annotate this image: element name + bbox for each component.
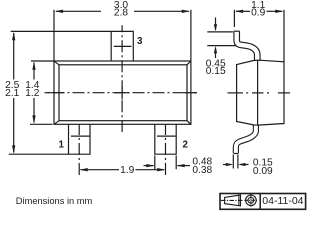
side view: body mold line <box>257 60 259 125</box>
centerline tick right body edge <box>184 92 197 94</box>
dimension 1.1/0.9 extension lines <box>233 10 235 27</box>
pin 1 centerline <box>78 125 80 177</box>
pin 2 crossbar <box>157 135 176 137</box>
tab pin 3 <box>111 31 133 61</box>
side view: lead 3 (top, S-bend) <box>237 31 258 61</box>
pin 2 <box>155 124 176 154</box>
side view: centerline <box>228 92 244 94</box>
dimension 0.15/0.09 extension lines <box>232 155 234 169</box>
svg-text:2: 2 <box>182 139 188 150</box>
side view: bottom lead (pins 1/2, S-bend) <box>236 125 256 153</box>
corner chamfer bottom-right <box>187 121 191 125</box>
pin 2 centerline <box>165 125 167 177</box>
svg-text:Dimensions in mm: Dimensions in mm <box>16 196 93 206</box>
svg-text:3: 3 <box>137 36 143 47</box>
dimension 0.45/0.15 extension lines <box>207 31 233 33</box>
corner chamfer top-left <box>54 61 59 65</box>
svg-text:1.2: 1.2 <box>25 88 39 99</box>
arrowhead 1.4 bottom <box>32 115 35 123</box>
vertical centerline of package <box>121 25 123 132</box>
body outline (top view, outer) <box>54 61 191 124</box>
arrowhead 2.5 bottom <box>12 145 15 153</box>
arrowhead 0.15 left <box>226 163 233 166</box>
svg-text:1.9: 1.9 <box>120 165 134 176</box>
side view: bottom lead tip end face <box>234 153 238 155</box>
pin 3 crossbar <box>114 45 132 47</box>
dimension 0.45/0.15 arrow shafts <box>215 18 217 30</box>
dimension 2.5/2.1 line <box>13 33 15 80</box>
dimension 0.48/0.38 arrows shafts <box>144 165 154 167</box>
arrowhead 2.5 top <box>12 32 15 40</box>
svg-text:0.9: 0.9 <box>251 7 265 18</box>
svg-text:0.09: 0.09 <box>253 166 273 177</box>
dimension 3.0/2.8 extension lines <box>53 10 55 61</box>
arrowhead 1.9 right <box>157 168 165 171</box>
arrowhead 0.15 right <box>238 163 245 166</box>
title block divider <box>259 194 261 210</box>
arrowhead 1.1 right <box>275 10 283 13</box>
dimension 1.9 line <box>81 169 120 171</box>
arrowhead 3.0 right <box>182 10 190 13</box>
pin 1 crossbar <box>71 135 91 137</box>
arrowhead 1.4 top <box>32 62 35 70</box>
dimension 1.4/1.2 line <box>33 63 35 80</box>
svg-text:04-11-04: 04-11-04 <box>262 195 303 207</box>
corner chamfer top-right <box>187 61 191 65</box>
dimension 2.5/2.1 extension line (pin bottom) <box>9 153 69 155</box>
svg-text:0.38: 0.38 <box>192 165 212 176</box>
horizontal centerline of package <box>45 92 197 94</box>
arrowhead 0.45 top <box>214 24 217 31</box>
arrowhead 3.0 left <box>55 10 63 13</box>
centerline tick at center <box>115 92 129 94</box>
title block box <box>220 194 306 210</box>
arrowhead 0.48 left <box>146 164 154 167</box>
dimension 1.1/0.9 line <box>236 10 250 12</box>
svg-text:2.1: 2.1 <box>5 88 19 99</box>
svg-text:1: 1 <box>58 139 64 150</box>
arrowhead 1.9 left <box>79 168 87 171</box>
dimension 0.15/0.09 arrow shafts <box>223 164 231 166</box>
projection symbol: circles <box>244 194 257 207</box>
side view: lead 3 tip end face <box>234 30 240 32</box>
arrowhead 0.45 bottom <box>214 46 217 53</box>
centerline tick left body edge <box>45 92 65 94</box>
dimension 0.48/0.38 extension lines <box>154 156 156 170</box>
body outline (top view, inner edge) <box>59 65 187 121</box>
side view: body <box>237 60 284 125</box>
dimension 3.0/2.8 line <box>56 10 101 12</box>
dimension 1.4/1.2 extension line (body top) <box>31 60 54 62</box>
corner chamfer bottom-left <box>54 121 59 125</box>
svg-text:0.15: 0.15 <box>206 66 226 77</box>
projection symbol: truncated cone <box>221 195 243 206</box>
svg-text:2.8: 2.8 <box>114 7 128 18</box>
arrowhead 0.48 right <box>176 164 184 167</box>
arrowhead 1.1 left <box>235 10 243 13</box>
pin 1 <box>69 124 91 154</box>
dimension 2.5/2.1 extension line (tab top) <box>11 30 112 32</box>
dimension 1.4/1.2 extension line (body bottom) <box>30 123 53 125</box>
